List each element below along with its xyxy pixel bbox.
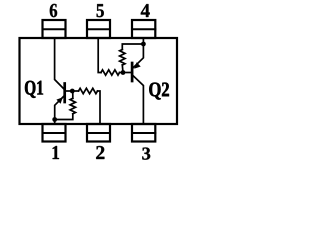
resistor R2 of Q2 (vertical): [120, 50, 125, 66]
Q1 base wire to node B: [66, 90, 79, 92]
resistor R2 of Q1 (vertical): [70, 98, 75, 114]
Q1 base bar: [63, 84, 66, 103]
pin 3 lead box: [132, 124, 155, 142]
junction dot node A (pin4/emitter/R2): [141, 42, 146, 47]
wire Q2 base node to base bar: [120, 72, 131, 74]
Q2 collector diagonal and wire to pin 3: [133, 76, 143, 124]
wire pin5 to R1 of Q2: [98, 38, 101, 73]
wire node B down to R2 of Q1: [72, 91, 74, 98]
package outline: [20, 38, 178, 124]
pin label 3: [142, 148, 150, 160]
pin 2 lead box: [87, 124, 110, 142]
pin label 4: [141, 4, 150, 17]
transistor Q2 base bar: [131, 63, 134, 81]
Q1 emitter diagonal and wire to pin 1: [55, 97, 64, 125]
pin 4 lead box: [132, 20, 155, 38]
junction dot Q1 emitter node (pin 1): [52, 117, 57, 122]
pin 6 lead box: [43, 20, 66, 38]
junction dot Q2 base node: [121, 70, 126, 75]
pin 1 lead box: [43, 124, 66, 142]
wire R1 of Q1 to pin 2: [98, 91, 101, 124]
pin label 6: [50, 4, 57, 17]
Q2 emitter diagonal: [133, 44, 143, 68]
pin label 1: [53, 146, 59, 159]
resistor R1 of Q1 (horizontal): [79, 88, 98, 93]
pin label 2: [96, 146, 104, 159]
pin 5 lead box: [87, 20, 110, 38]
Q1 emitter arrow (PNP, pointing into bar): [56, 97, 62, 104]
transistor label Q2: [149, 83, 169, 100]
wire node A to R2 of Q2: [122, 44, 143, 50]
pin label 5: [97, 4, 104, 17]
wire pin6 to Q1 collector: [55, 38, 64, 89]
transistor label Q1: [25, 81, 43, 98]
junction dot Q1 base node B: [70, 89, 75, 94]
resistor R1 of Q2 (horizontal): [101, 70, 120, 75]
Q2 emitter arrow (PNP, pointing into bar): [134, 62, 141, 68]
wire R2 of Q1 to emitter node: [55, 114, 73, 120]
wire R2 bottom to Q2 base node: [121, 65, 124, 73]
wire pin4 to node A: [142, 38, 144, 44]
